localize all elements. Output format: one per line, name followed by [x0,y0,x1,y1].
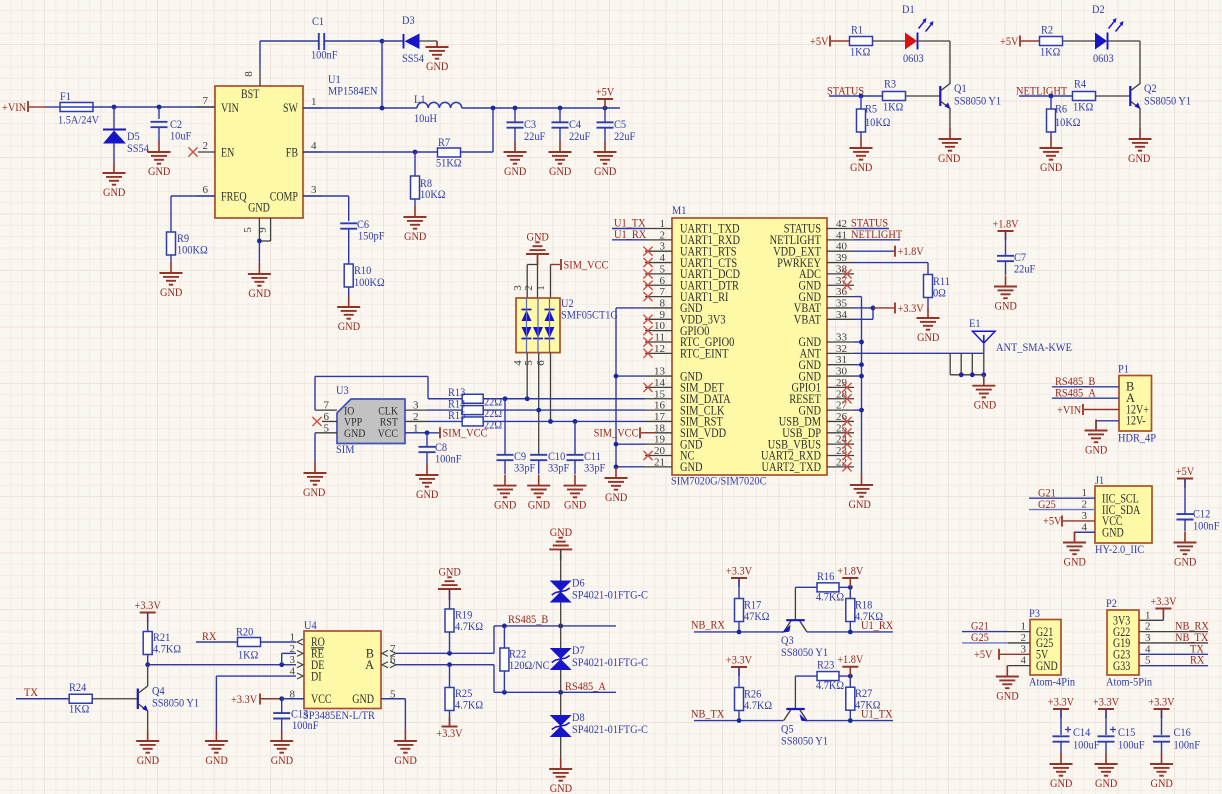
svg-text:SIM_VCC: SIM_VCC [443,426,488,440]
capacitor C7 22uF [997,231,1036,276]
ground GND at U1 [248,263,271,300]
wire SIM_RST row [483,419,645,424]
svg-text:0Ω: 0Ω [933,286,946,300]
svg-text:100nF: 100nF [1193,519,1220,533]
svg-text:51KΩ: 51KΩ [436,156,462,170]
svg-text:+5V: +5V [810,34,829,48]
junction node VIN-D5 [112,105,117,110]
capacitor C4 22uF [552,108,591,143]
ground GND above U2 [526,229,549,265]
svg-text:SW: SW [283,101,298,115]
junction node VIN-C2 [157,105,162,110]
resistor R8 10K [411,152,446,206]
svg-text:40: 40 [836,241,848,253]
svg-text:1KΩ: 1KΩ [850,45,871,59]
net SIM_VCC port at U2 [561,257,609,271]
junction NETLIGHT-R6 [1049,94,1054,99]
resistor R16 4.7K [816,569,844,604]
svg-text:22uF: 22uF [1014,262,1036,276]
U2 bottom pins [512,353,551,455]
svg-text:D1: D1 [902,2,915,16]
wire J1 pin4 to ground [1075,532,1096,541]
svg-text:3: 3 [413,400,419,412]
svg-text:L1: L1 [414,92,426,106]
svg-text:+3.3V: +3.3V [1093,695,1120,709]
net SIM_VCC port at pin 18 [594,426,656,440]
svg-text:1KΩ: 1KΩ [69,702,90,716]
capacitor C15 100uF [1098,709,1145,753]
svg-text:F1: F1 [60,89,71,103]
svg-text:2: 2 [523,285,535,291]
ground GND at C9 [494,475,517,512]
svg-text:SIM: SIM [336,442,355,456]
M1 left no-connect marks [643,247,652,461]
svg-text:E1: E1 [969,316,981,330]
svg-text:GND: GND [996,688,1019,702]
svg-text:R1: R1 [851,23,863,37]
junction rail-R7riser [491,106,496,111]
svg-text:GND: GND [1174,554,1197,568]
svg-text:17: 17 [654,411,666,423]
wire U3 GND pin5 [314,433,316,462]
svg-text:41: 41 [836,229,847,241]
net label NB_RX [691,618,784,635]
ground GND at C15 [1095,753,1118,790]
ground GND at D8 [549,758,572,794]
svg-text:2: 2 [203,140,209,152]
fuse F1 1.5A/24V [58,89,100,127]
wire D1 to Q1 collector [918,41,951,84]
diode D3 SS54 [402,13,437,65]
M1 right pin stubs and numbers [827,218,854,468]
svg-text:GND: GND [995,298,1018,312]
svg-text:100nF: 100nF [311,48,338,62]
svg-text:7: 7 [203,95,209,107]
svg-text:GND: GND [416,487,439,501]
wire pin30 GND [854,374,864,379]
svg-text:+VIN: +VIN [1057,402,1082,416]
svg-text:4.7KΩ: 4.7KΩ [816,590,844,604]
svg-text:NETLIGHT: NETLIGHT [851,227,903,241]
wire Q3 collector to U1_RX [807,630,893,635]
svg-text:150pF: 150pF [358,229,385,243]
junction node BST-D3 [380,39,385,44]
capacitor C1 100nF [311,14,338,62]
svg-text:U1_RX: U1_RX [614,227,647,241]
wire +VIN to F1 [45,106,60,108]
junction SW node [380,106,385,111]
net label RX [196,629,238,643]
svg-text:34: 34 [836,309,848,321]
wire U4 B to RS485_B [396,626,494,653]
svg-text:GND: GND [303,485,326,499]
net label NETLIGHT at pin 41 [851,227,903,241]
antenna shield comb to ground [950,353,986,377]
net +VIN port at P1 [1057,402,1119,416]
svg-text:RX: RX [202,629,217,643]
pin 4 FB stub [303,140,322,152]
svg-text:1: 1 [1082,487,1088,499]
svg-text:COMP: COMP [270,190,298,204]
svg-text:20: 20 [654,445,666,457]
svg-text:4.7KΩ: 4.7KΩ [816,678,844,692]
ground GND above R19 [438,564,461,600]
svg-text:4: 4 [1082,521,1088,533]
net label NETLIGHT [1016,84,1073,98]
U4 pin arrow glyphs [297,639,396,679]
svg-text:U3: U3 [336,383,349,397]
svg-text:GND: GND [938,151,961,165]
net label G25 at P3 [962,630,1008,644]
svg-text:+5V: +5V [596,85,615,99]
svg-text:U1_TX: U1_TX [861,707,893,721]
wire SW to L1 [303,107,417,109]
svg-text:SP4021-01FTG-C: SP4021-01FTG-C [572,655,648,669]
svg-text:3: 3 [660,241,666,253]
wire pin39 PWRKEY to R11 [854,263,928,274]
svg-text:100nF: 100nF [435,452,462,466]
svg-text:100nF: 100nF [1174,738,1201,752]
svg-text:GND: GND [549,164,572,178]
svg-text:NB_TX: NB_TX [691,706,725,720]
svg-text:1KΩ: 1KΩ [883,100,904,114]
net label RS485_B [508,612,548,626]
connector J1 HY-2.0_IIC body [1095,486,1152,543]
wire F1 to U1 VIN [93,106,215,108]
resistor R26 4.7K [735,667,773,721]
wire U3 VCC to SIM_VCC [405,430,439,435]
ground GND at C4 [549,141,572,178]
pin 6 FREQ stub [196,184,215,196]
svg-text:33: 33 [836,332,848,344]
transistor Q4 SS8050 [138,665,199,730]
ground GND at R6 [1040,137,1063,174]
svg-text:1: 1 [1021,621,1027,633]
svg-text:R3: R3 [884,77,896,91]
wire FB net [303,151,437,153]
svg-text:SS54: SS54 [127,141,149,155]
svg-text:GND: GND [494,497,517,511]
resistor R4 1K [1073,77,1096,114]
svg-text:120Ω/NC: 120Ω/NC [509,658,550,672]
svg-text:Atom-4Pin: Atom-4Pin [1029,675,1075,689]
capacitor C13 100nF [273,699,319,732]
svg-text:33pF: 33pF [584,461,606,475]
svg-text:5: 5 [660,263,666,275]
wire node to D3 [382,40,404,42]
transistor Q1 SS8050 [940,81,1001,128]
resistor R15 22ohm [427,408,502,432]
wire P1 pin4 to ground [1096,421,1119,429]
svg-text:2: 2 [1082,499,1088,511]
svg-text:RTC_EINT: RTC_EINT [680,347,729,361]
wire RS485_B row [494,624,616,629]
M1 right no-connect marks [842,269,851,471]
svg-text:+3.3V: +3.3V [1048,695,1075,709]
svg-text:GND: GND [850,160,873,174]
net label RS485_A at P1 [1052,385,1119,399]
svg-text:12V-: 12V- [1126,414,1146,428]
svg-text:4: 4 [1145,643,1151,655]
junction STATUS-R5 [859,94,864,99]
net +3.3V flag at C15 [1093,695,1120,719]
svg-text:GND: GND [1085,442,1108,456]
svg-text:1KΩ: 1KΩ [1073,100,1094,114]
svg-text:15: 15 [654,388,666,400]
svg-text:22: 22 [836,456,847,468]
svg-text:2: 2 [1021,632,1027,644]
svg-text:7: 7 [660,286,666,298]
wire R2 to D2 [1063,40,1096,42]
svg-text:5: 5 [324,422,330,434]
resistor R20 1K [236,625,261,662]
wire pin8 GND to left bus [616,307,645,309]
svg-text:P3: P3 [1029,606,1040,620]
net +5V power port at R1 [810,34,850,48]
right GND bus vertical [854,297,862,474]
svg-text:4: 4 [311,140,317,152]
net label U1_TX at Q5 [861,707,893,721]
svg-text:VIN: VIN [221,101,239,115]
svg-text:1: 1 [311,96,317,108]
TVS diode D8 SP4021-01FTG-C [550,692,648,758]
wire P3 pin4 to ground [1006,666,1008,675]
net +3.3V flag at C14 [1048,695,1075,719]
svg-text:4.7KΩ: 4.7KΩ [744,698,772,712]
svg-text:+VIN: +VIN [2,100,27,114]
U1 ground pins 5 and 9 [242,218,271,263]
svg-text:11: 11 [654,332,665,344]
svg-text:A: A [365,658,374,672]
antenna E1 ANT_SMA-KWE [969,316,1072,354]
wire SIM_DATA row [483,396,645,401]
wire R23 to 1.8V node [839,674,853,679]
transistor Q2 SS8050 [1130,81,1191,128]
svg-text:VCC: VCC [311,692,332,706]
diode array U2 SMF05CT1G body [516,298,560,353]
net label TX [16,685,69,699]
svg-text:22Ω: 22Ω [484,418,502,432]
svg-text:G25: G25 [1038,497,1056,511]
net label U1_TX at pin 1 [612,216,646,230]
svg-text:100KΩ: 100KΩ [177,243,208,257]
net label G21 at P3 [962,619,1008,633]
TVS diode D6 SP4021-01FTG-C [550,549,648,626]
svg-text:GND: GND [148,164,171,178]
resistor R14 22ohm [427,397,502,421]
net label G21 at J1 [1029,485,1095,499]
svg-text:GND: GND [1128,151,1151,165]
wire D2 to Q2 collector [1108,41,1141,84]
ground GND at left bus [605,467,628,504]
pin 1 SW stub [303,96,322,108]
capacitor C2 10uF [151,107,192,143]
capacitor C5 22uF [597,108,636,143]
J1 pin numbers [1082,487,1088,533]
M1 left pin stubs and numbers [645,218,672,468]
net +3.3V flag at C16 [1148,695,1175,719]
resistor R23 4.7K [816,658,844,693]
svg-text:8: 8 [243,71,255,77]
svg-text:SP4021-01FTG-C: SP4021-01FTG-C [572,588,648,602]
junction A-R25 [447,662,452,667]
wire Q5 base to R23 [795,675,817,677]
pin 8 BST stub and wire up [243,41,260,86]
net label NB_RX at P2 [1175,619,1209,633]
resistor R19 4.7K [445,589,483,653]
ground GND at antenna [972,375,996,412]
svg-text:100uF: 100uF [1118,738,1145,752]
svg-text:4.7KΩ: 4.7KΩ [455,698,483,712]
svg-text:1KΩ: 1KΩ [238,648,259,662]
svg-text:R15: R15 [448,408,465,422]
svg-text:TX: TX [24,685,38,699]
net +3.3V flag at R26 [726,653,753,677]
svg-text:+3.3V: +3.3V [231,692,258,706]
IC M1 SIM7020G/SIM7020C module body [672,218,827,475]
svg-text:GND: GND [528,497,551,511]
TVS diode D7 SP4021-01FTG-C [550,626,648,692]
wire RS485_A row [494,690,616,695]
op-amp U1 MP1584EN regulator body [215,86,303,218]
U2 designator labels [561,296,618,322]
svg-text:0603: 0603 [1093,51,1114,65]
resistor R21 4.7K [143,613,181,665]
ground GND at Q2 [1128,128,1152,165]
svg-text:6: 6 [203,184,209,196]
net +5V port at P3 [974,647,999,661]
net label G25 at J1 [1029,497,1095,511]
net +1.8V port at pin 40 [854,244,924,258]
connector P3 Atom-4Pin body [1030,620,1061,676]
svg-text:R16: R16 [817,569,834,583]
svg-text:+3.3V: +3.3V [1148,695,1175,709]
svg-text:D3: D3 [402,13,415,27]
svg-text:10uH: 10uH [414,111,437,125]
svg-text:GND: GND [1102,525,1124,539]
wire pin33 GND [854,340,864,345]
svg-text:4.7KΩ: 4.7KΩ [153,642,181,656]
svg-text:DI: DI [311,669,322,683]
svg-text:GND: GND [1095,776,1118,790]
no-connect at U3 VPP [312,417,321,426]
resistor R18 4.7K [846,587,883,632]
svg-text:6: 6 [660,275,666,287]
svg-text:21: 21 [654,456,665,468]
wire ANT pin 32 to antenna [854,352,984,354]
svg-text:7: 7 [324,400,330,412]
svg-text:39: 39 [836,252,848,264]
wire R3 to Q1 base [906,95,940,97]
svg-text:5: 5 [242,227,254,233]
U1 designator labels [328,72,378,98]
svg-text:+5V: +5V [974,647,993,661]
svg-text:FREQ: FREQ [221,190,247,204]
svg-text:5: 5 [1145,655,1151,667]
wire pin13 GND [614,374,645,379]
net +1.8V flag at R27 [837,652,864,676]
ground GND above D6 [549,525,572,561]
U3 designator labels [336,383,355,456]
ground GND at C3 [504,141,527,178]
net +3.3V port at VBAT [873,301,924,315]
ground GND at C2 [148,141,171,178]
wire R20 to U4 RO [261,641,297,643]
svg-text:3: 3 [1145,632,1151,644]
svg-text:D2: D2 [1092,2,1105,16]
svg-text:13: 13 [654,366,666,378]
svg-text:GND: GND [338,319,361,333]
ground GND at C12 [1174,532,1197,569]
resistor R2 1K [1040,23,1063,59]
svg-text:22uF: 22uF [524,129,546,143]
svg-text:GND: GND [344,426,366,440]
svg-text:C1: C1 [312,14,324,28]
svg-text:EN: EN [221,146,234,160]
resistor R24 1K [69,680,92,716]
svg-text:GND: GND [605,490,628,504]
svg-text:GND: GND [103,185,126,199]
svg-text:14: 14 [654,377,666,389]
svg-text:100nF: 100nF [292,718,319,732]
svg-text:GND: GND [504,164,527,178]
net +3.3V inverted flag at R25 [436,718,463,741]
net label RS485_B at P1 [1052,374,1119,388]
connector P1 HDR_4P body [1119,376,1152,432]
svg-text:35: 35 [836,297,848,309]
svg-text:SS54: SS54 [402,51,424,65]
resistor R3 1K [883,77,906,114]
svg-text:8: 8 [660,297,666,309]
svg-text:9: 9 [660,309,666,321]
ground GND at P1 [1085,420,1108,457]
svg-text:GND: GND [439,564,462,578]
svg-text:SS8050 Y1: SS8050 Y1 [954,94,1001,108]
svg-text:GND: GND [248,201,270,215]
svg-text:10: 10 [654,320,666,332]
ground GND at U3 [303,462,327,499]
ground GND at DI [205,730,228,767]
inductor L1 10uH [414,92,462,125]
svg-text:GND: GND [137,753,160,767]
svg-text:J1: J1 [1095,473,1104,487]
U2 top pin wiring [512,254,560,298]
svg-text:6: 6 [324,411,330,423]
resistor R11 0ohm [924,274,950,307]
ground GND at C11 [564,475,587,512]
svg-text:VBAT: VBAT [794,313,822,327]
svg-text:+3.3V: +3.3V [135,598,162,612]
svg-text:1: 1 [1145,609,1151,621]
svg-text:BST: BST [241,87,260,101]
svg-text:0603: 0603 [903,51,924,65]
svg-text:+5V: +5V [1176,464,1195,478]
ground GND at Q4 [136,730,159,767]
svg-text:M1: M1 [672,203,686,217]
net label U1_RX at pin 2 [612,227,647,241]
U4 part name SP3485EN-L/TR [303,708,375,722]
connector U3 SIM holder body [337,399,405,444]
svg-text:GND: GND [527,229,550,243]
junction B-R19 [447,651,452,656]
net label STATUS [827,84,883,98]
svg-text:P1: P1 [1118,362,1129,376]
net +3.3V flag at R21 [135,598,162,622]
wire pin27 GND [854,408,864,413]
wire pin19 GND [614,442,645,447]
ground GND at R8 [404,206,427,243]
svg-text:GND: GND [160,285,183,299]
